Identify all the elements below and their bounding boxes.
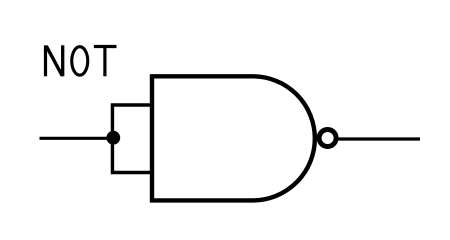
NAND gate U1 body: [152, 76, 315, 200]
wire output: [338, 137, 420, 140]
label NOT (letter T): [94, 45, 117, 76]
inversion bubble: [319, 130, 336, 147]
node junction dot: [106, 131, 120, 145]
label NOT (letter O): [72, 47, 88, 76]
wire branch to both NAND inputs: [112, 105, 152, 173]
wire input: [40, 137, 114, 140]
label NOT (letter N): [46, 45, 63, 76]
